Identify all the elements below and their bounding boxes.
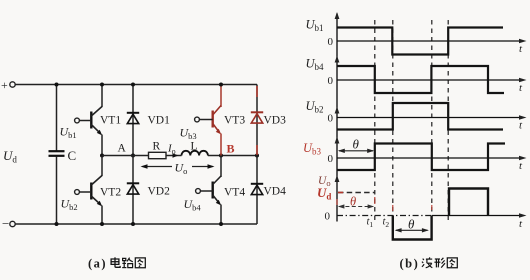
axis row4 Ub3 (303, 137, 527, 173)
svg-text:0: 0 (328, 75, 334, 87)
hanzi lu (122, 258, 133, 268)
caption (a) circuit diagram (88, 257, 145, 271)
dashed timing line t1 (x=393) (392, 20, 394, 221)
measure arrow Uo (output voltage between A and B) (141, 161, 215, 177)
transistor VT2 (75, 176, 122, 207)
junction dots top rail (55, 83, 224, 87)
waveform Ub2 (337, 103, 503, 130)
wire inductor to node B (208, 155, 257, 157)
svg-text:0: 0 (328, 153, 334, 165)
node A (100, 143, 135, 158)
svg-text:θ: θ (350, 195, 356, 209)
diode VD3 (red) (251, 85, 286, 156)
hanzi tu2 (447, 258, 457, 268)
theta measure arrow row5 (red label) (338, 195, 374, 209)
terminal + (positive input) (1, 78, 15, 92)
svg-text:VT1: VT1 (100, 115, 121, 127)
svg-text:VT2: VT2 (100, 187, 121, 199)
svg-text:0: 0 (328, 36, 334, 48)
svg-text:(b): (b) (400, 257, 420, 271)
capacitor C (49, 85, 77, 225)
wire node A to resistor (102, 155, 149, 157)
wire VT4 emitter to bottom rail (220, 205, 222, 225)
terminal - (negative input) (2, 216, 15, 231)
inductor L (182, 141, 208, 156)
shared vertical axis line (336, 14, 338, 222)
wire VT1 collector branch (101, 85, 103, 108)
svg-text:C: C (68, 148, 77, 163)
wire VT4 collector branch (220, 156, 222, 178)
wire VT3 collector branch (red tinted) (220, 85, 222, 108)
svg-text:VT4: VT4 (224, 187, 245, 199)
svg-text:VD2: VD2 (148, 186, 171, 198)
dashed Ud level line (338, 192, 375, 194)
wire bottom rail (15, 223, 257, 225)
diode VD1 (127, 85, 170, 156)
diode VD4 (251, 156, 286, 225)
svg-text:L: L (191, 141, 198, 153)
hanzi xing (434, 258, 445, 268)
theta measure arrow in negative pulse (395, 217, 429, 233)
svg-text:0: 0 (328, 113, 334, 125)
svg-text:B: B (227, 142, 235, 156)
svg-text:(a): (a) (88, 257, 107, 271)
svg-text:θ: θ (353, 137, 360, 152)
waveform uo negative pulse (393, 216, 432, 240)
junction dots bottom rail (55, 222, 224, 226)
svg-text:R: R (153, 141, 161, 153)
hanzi dian (111, 257, 120, 267)
wire VT2 collector branch (101, 156, 103, 177)
dashed timing line (x=432) (431, 20, 433, 221)
svg-text:VD3: VD3 (264, 115, 287, 127)
svg-text:+: + (1, 78, 8, 92)
svg-text:−: − (2, 216, 9, 231)
svg-text:VD4: VD4 (264, 186, 287, 198)
transistor VT1 (75, 107, 122, 136)
waveform Ub1 (337, 28, 503, 55)
resistor R (149, 141, 167, 159)
wire VT1 emitter to node A (101, 135, 103, 156)
svg-text:VT3: VT3 (224, 115, 245, 127)
wire VT3 emitter to node B (red tinted) (220, 134, 222, 156)
axis row3 Ub2 (306, 99, 527, 132)
red tick marks on timing lines (337, 197, 432, 211)
svg-text:A: A (118, 143, 127, 155)
hanzi tu (135, 258, 145, 268)
dashed timing line t=theta (x=375) (374, 20, 376, 221)
diode VD2 (127, 156, 170, 225)
caption (b) waveform diagram (400, 257, 458, 271)
waveform Ub3 (337, 144, 505, 171)
svg-text:VD1: VD1 (148, 115, 171, 127)
wire top rail (15, 84, 257, 86)
svg-text:0: 0 (325, 211, 331, 223)
transistor VT4 (196, 176, 246, 206)
wire with current arrow Io (166, 143, 182, 158)
dashed timing line (x=448) (447, 20, 449, 221)
hanzi bo (422, 257, 432, 267)
svg-text:θ: θ (408, 217, 415, 232)
theta measure arrow row4 (338, 137, 374, 154)
waveform uo positive pulse (449, 189, 488, 216)
wire VT2 emitter to bottom rail (101, 206, 103, 225)
axis row2 Ub4 (306, 56, 527, 95)
axis row5 uo (317, 175, 527, 230)
transistor VT3 (195, 106, 246, 135)
waveform Ub4 (337, 66, 504, 93)
node B (219, 142, 259, 158)
axis row1 Ub1 (306, 12, 527, 55)
